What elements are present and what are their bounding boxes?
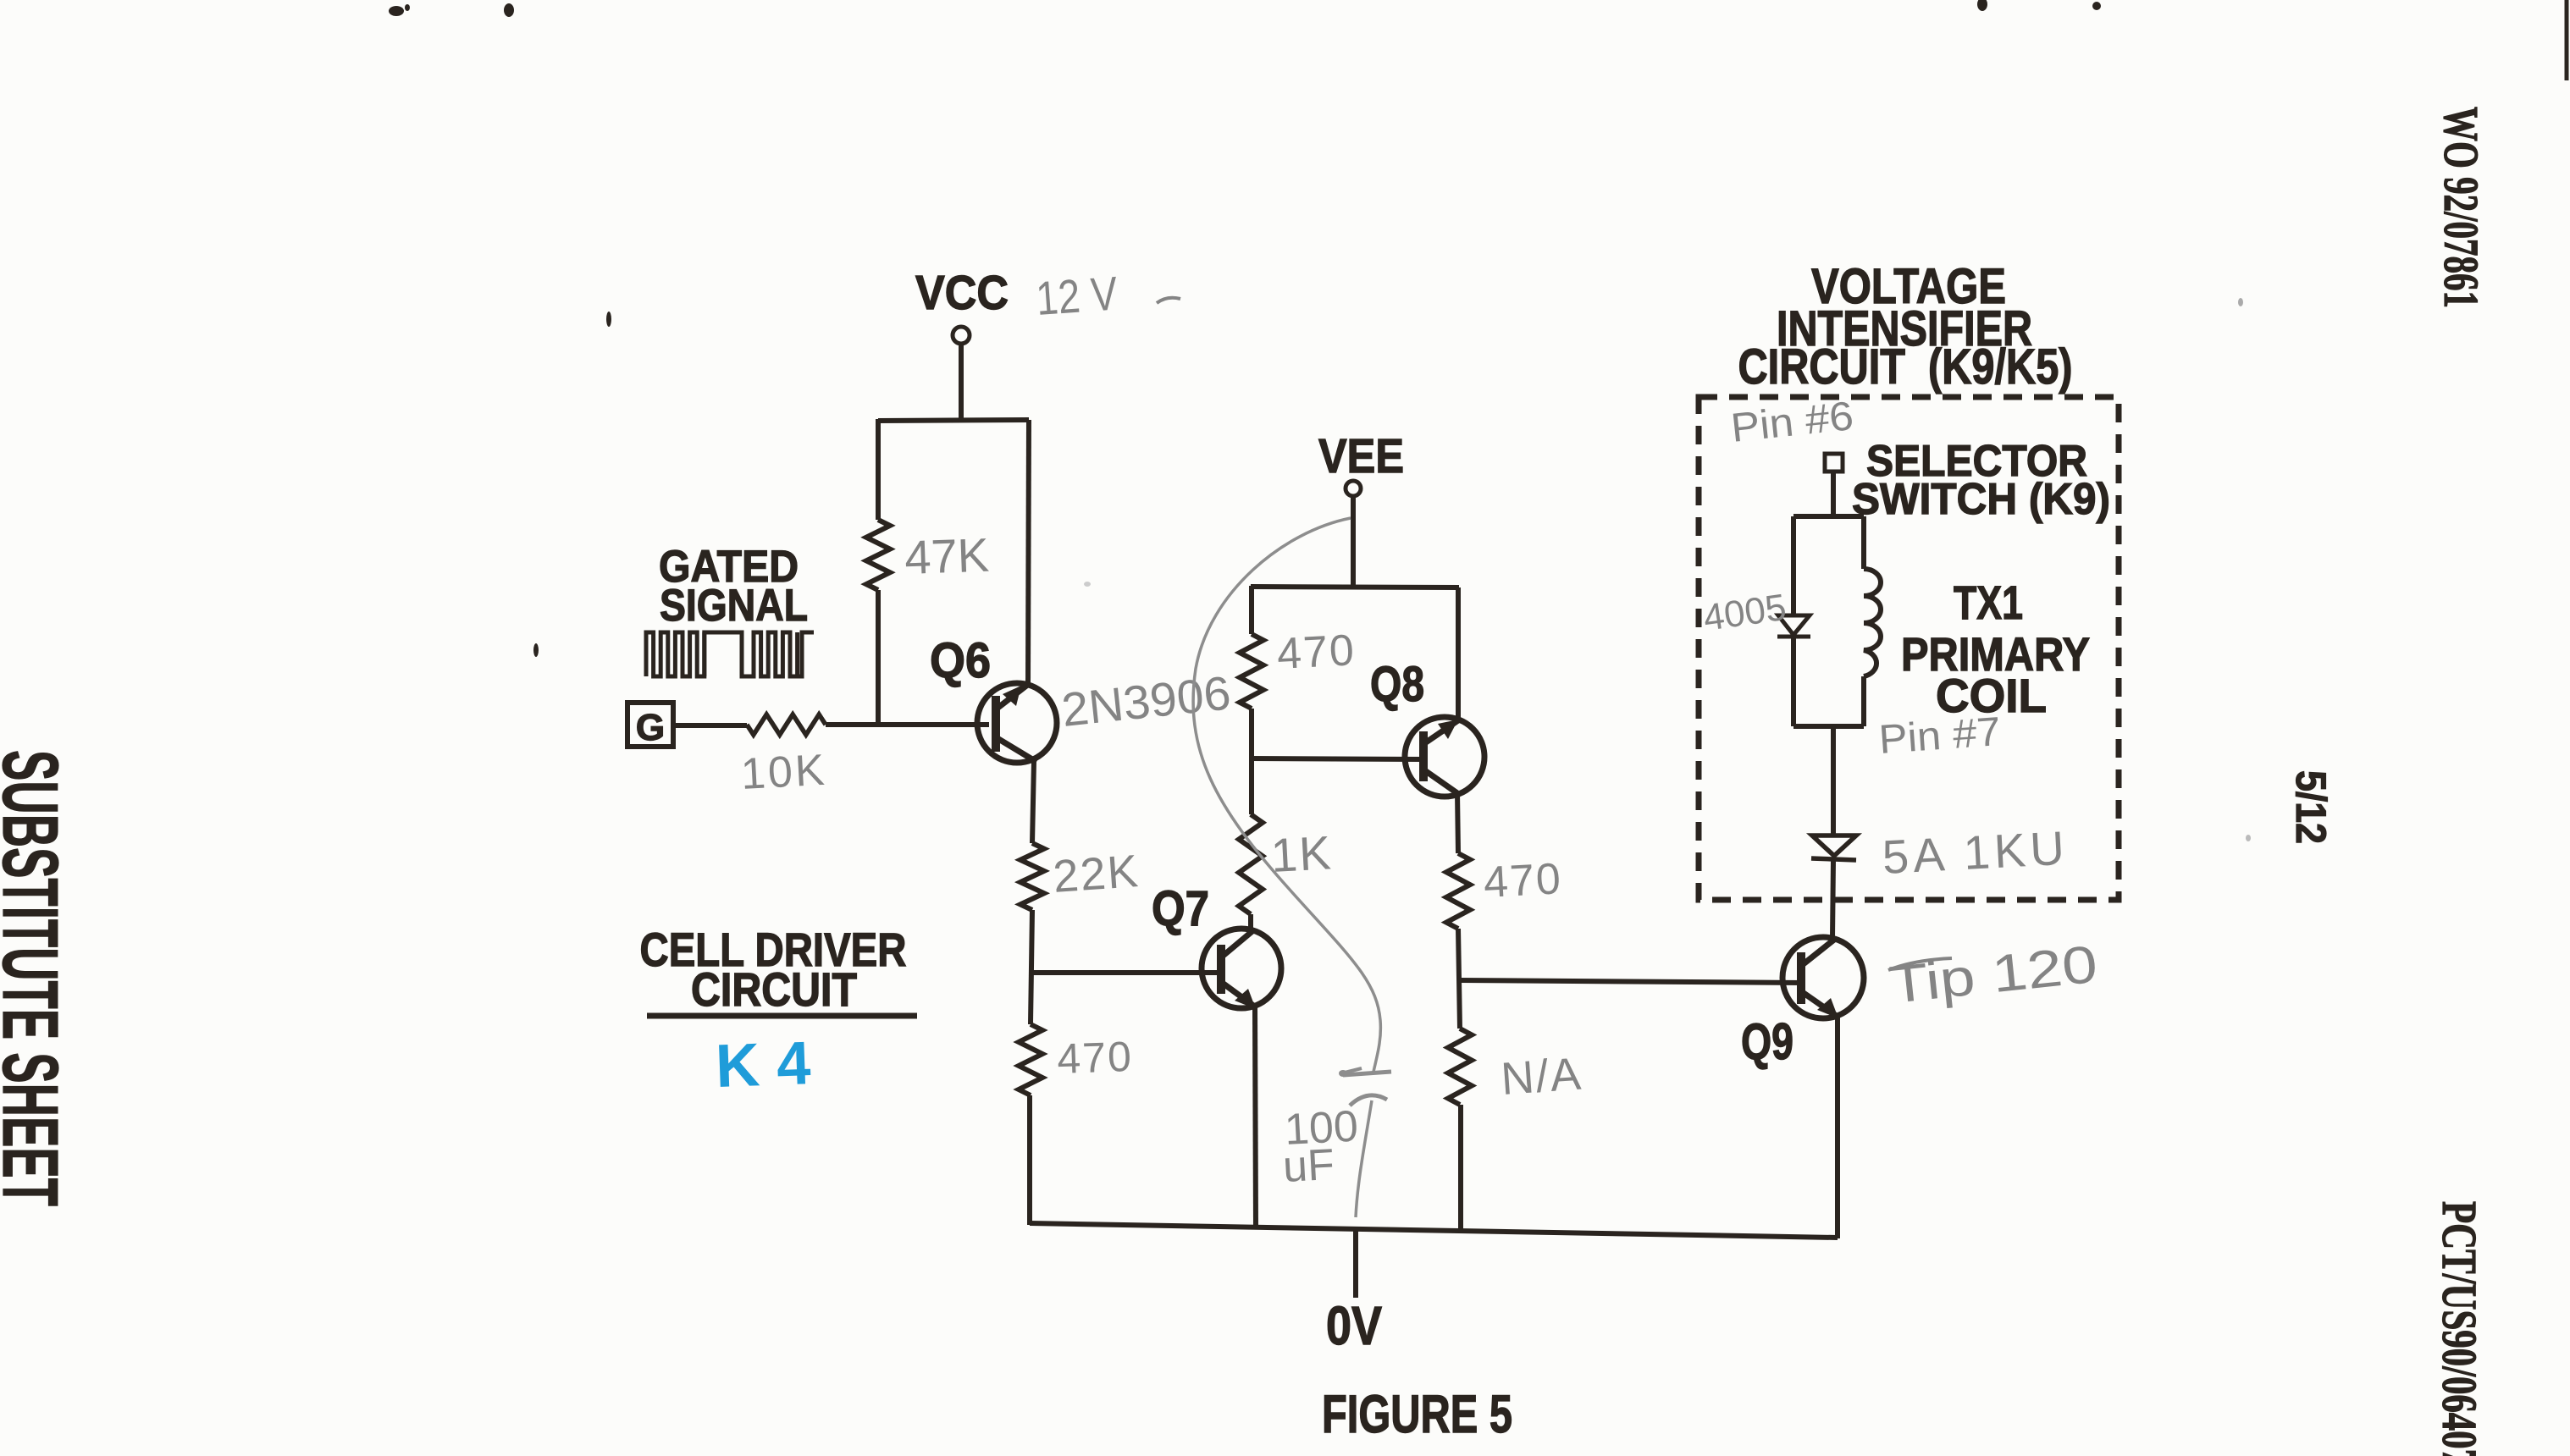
svg-text:Q9: Q9: [1741, 1013, 1793, 1070]
svg-text:K 4: K 4: [715, 1029, 812, 1100]
wire node to Q9 base: [1460, 980, 1803, 983]
wire node to Q8 base: [1251, 758, 1424, 759]
resistor 470 (Q8 emitter): [1446, 853, 1470, 929]
capacitor 100uF (pencil sketch): [1193, 518, 1380, 1072]
wire Q7 emitter down: [1255, 1007, 1256, 1227]
wire VEE stem: [1351, 496, 1356, 587]
wire 470 to bottom rail: [1027, 1095, 1032, 1225]
svg-text:Pin #6: Pin #6: [1729, 394, 1856, 451]
svg-text:0V: 0V: [1326, 1295, 1382, 1356]
svg-text:470: 470: [1276, 626, 1357, 679]
wire Q8 emitter down: [1457, 792, 1458, 853]
ink specks top margin: [389, 6, 404, 16]
selector switch body (relay): [1793, 514, 1864, 519]
wire pin to switch body: [1831, 472, 1836, 516]
wire G to 10K: [673, 723, 747, 728]
diode 5A 1KV: [1812, 836, 1856, 856]
svg-text:N/A: N/A: [1500, 1048, 1584, 1105]
svg-text:CIRCUIT (K9/K5): CIRCUIT (K9/K5): [1738, 339, 2073, 394]
wire VCC stem: [959, 344, 964, 421]
svg-text:WO 92/07861: WO 92/07861: [2434, 107, 2489, 308]
wire left branch upper: [876, 419, 881, 520]
svg-text:Q6: Q6: [930, 633, 991, 688]
resistor 470 (lower left): [1019, 1024, 1042, 1095]
wire 470 to Q8-base node: [1249, 709, 1254, 814]
wire diode to Q9: [1832, 860, 1833, 938]
wire VEE top rail: [1251, 587, 1459, 587]
svg-text:FIGURE 5: FIGURE 5: [1322, 1385, 1512, 1444]
wire Q9 emitter to bottom rail: [1835, 1017, 1840, 1238]
svg-text:SIGNAL: SIGNAL: [660, 581, 808, 631]
svg-text:G: G: [636, 707, 665, 748]
svg-text:VEE: VEE: [1318, 429, 1404, 483]
svg-text:47K: 47K: [904, 528, 990, 584]
resistor 1K: [1239, 814, 1263, 914]
0V stub: [1353, 1230, 1358, 1298]
svg-text:Tip 120: Tip 120: [1887, 935, 2100, 1015]
svg-text:Q8: Q8: [1370, 657, 1424, 712]
wire 47K to base node: [876, 590, 881, 727]
svg-text:10K: 10K: [740, 746, 828, 799]
wire Q6 collector down: [1032, 761, 1034, 843]
wire right branch to Q6 collector: [1028, 420, 1029, 683]
bottom rail 0V: [1030, 1223, 1838, 1238]
selector terminal pin: [1825, 454, 1843, 472]
resistor 10K: [747, 714, 826, 735]
svg-text:VCC: VCC: [915, 266, 1009, 320]
wire VEE right branch to Q8: [1456, 587, 1461, 721]
svg-text:4005: 4005: [1701, 587, 1789, 639]
svg-text:5/12: 5/12: [2287, 770, 2335, 844]
svg-text:12 V: 12 V: [1034, 266, 1119, 325]
wire 470 to node: [1458, 929, 1460, 1029]
scanner edge artifact: [2565, 0, 2569, 80]
resistor 22K: [1020, 843, 1044, 910]
node G input box: [627, 703, 673, 747]
wire 22K to node: [1031, 910, 1032, 1024]
svg-text:PCT/US90/06407: PCT/US90/06407: [2432, 1201, 2487, 1456]
svg-text:2N3906: 2N3906: [1059, 665, 1233, 736]
resistor 470 (VEE left): [1240, 634, 1263, 709]
svg-text:470: 470: [1483, 854, 1564, 907]
diode 4005: [1778, 615, 1810, 635]
svg-text:SWITCH (K9): SWITCH (K9): [1852, 475, 2110, 524]
VCC supply terminal: [953, 327, 970, 344]
VEE supply terminal: [1346, 481, 1361, 496]
svg-text:SUBSTITUTE SHEET: SUBSTITUTE SHEET: [0, 750, 75, 1206]
gated burst waveform: [646, 632, 705, 676]
svg-text:TX1: TX1: [1954, 576, 2023, 629]
svg-text:Pin #7: Pin #7: [1877, 709, 2002, 763]
wire 10K to Q6 base: [826, 722, 989, 727]
wire N/A to bottom rail: [1458, 1105, 1463, 1233]
svg-text:Q7: Q7: [1152, 881, 1209, 936]
svg-text:CIRCUIT: CIRCUIT: [691, 962, 857, 1016]
TX1 primary coil winding: [1861, 516, 1866, 569]
wire body to diode: [1831, 726, 1836, 836]
dashed enclosure: [1699, 397, 2119, 900]
svg-text:1K: 1K: [1269, 825, 1334, 882]
wire node to Q7 base: [1031, 970, 1222, 975]
wire top rail: [878, 420, 1029, 421]
wire left branch: [1249, 586, 1254, 634]
svg-text:22K: 22K: [1052, 846, 1141, 902]
svg-text:5A 1KU: 5A 1KU: [1881, 821, 2070, 884]
svg-text:uF: uF: [1282, 1140, 1336, 1192]
svg-text:470: 470: [1056, 1033, 1133, 1083]
wire 1K to Q7 collector: [1248, 914, 1253, 930]
resistor N/A: [1448, 1029, 1472, 1105]
resistor R 47K: [866, 520, 890, 590]
